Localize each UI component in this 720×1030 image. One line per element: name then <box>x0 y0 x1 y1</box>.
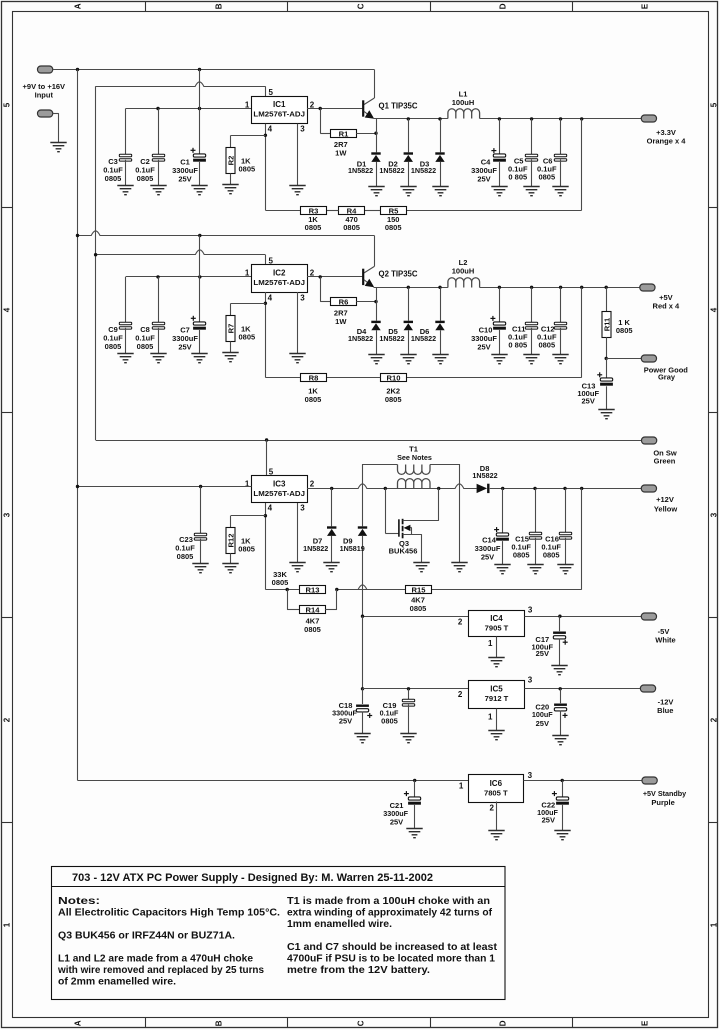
wire IC1 pin3 <box>297 124 299 185</box>
ground <box>413 563 429 572</box>
resistor R11 1K <box>605 286 608 289</box>
svg-text:0805: 0805 <box>137 174 154 183</box>
node C7 tap <box>198 275 201 278</box>
wire IC3 pin2 +12V line <box>307 484 477 489</box>
ground <box>400 734 416 743</box>
wire IC5 pin1 <box>496 709 498 731</box>
regulator IC3 LM2576T-ADJ <box>252 476 308 503</box>
ground <box>222 353 238 362</box>
svg-text:1N5822: 1N5822 <box>379 334 404 343</box>
diode D4 1N5822 <box>376 287 378 320</box>
node C21 tap <box>413 779 416 782</box>
node C1 tap <box>198 107 201 110</box>
transistor Q3 BUK456 mosfet <box>385 488 387 533</box>
svg-text:1mm enamelled wire.: 1mm enamelled wire. <box>287 919 392 930</box>
ground <box>222 185 238 194</box>
node section2 rail junction <box>76 234 79 237</box>
svg-text:1: 1 <box>710 922 719 927</box>
svg-text:0 805: 0 805 <box>508 341 527 350</box>
resistor R14 4K7 <box>287 590 289 610</box>
svg-text:3: 3 <box>300 125 305 134</box>
wire switch node 1 <box>374 118 448 120</box>
output terminal +12V <box>580 487 583 490</box>
node C7 rail tap <box>198 234 201 237</box>
diode D3 1N5822 <box>438 117 441 120</box>
svg-text:4: 4 <box>268 504 273 513</box>
wire section2 input rail <box>78 231 375 236</box>
wire IC1 pin1 line <box>126 108 252 110</box>
svg-text:A: A <box>73 1020 82 1026</box>
svg-text:0805: 0805 <box>177 552 194 561</box>
diode D1 1N5822 <box>376 119 378 152</box>
wire +V input rail <box>53 69 375 71</box>
wire on/off line to On-Sw <box>96 440 642 442</box>
node C8 tap <box>156 275 159 278</box>
ground <box>192 564 208 573</box>
svg-text:1: 1 <box>488 713 493 722</box>
svg-text:25V: 25V <box>390 818 403 827</box>
node C22 tap <box>561 779 564 782</box>
svg-text:1: 1 <box>245 480 250 489</box>
svg-text:R14: R14 <box>306 605 321 614</box>
ground <box>400 187 416 196</box>
svg-text:2: 2 <box>458 618 463 627</box>
svg-text:0805: 0805 <box>272 578 289 587</box>
svg-text:4: 4 <box>2 307 11 312</box>
capacitor C9 <box>125 277 127 323</box>
capacitor C7 <box>199 236 201 324</box>
capacitor C3 <box>125 109 127 156</box>
svg-text:5: 5 <box>2 102 11 107</box>
svg-text:3: 3 <box>710 512 719 517</box>
resistor R3 1K <box>301 207 327 215</box>
svg-text:25V: 25V <box>542 816 555 825</box>
ground <box>222 564 238 573</box>
svg-text:B: B <box>214 3 223 9</box>
svg-text:1N5822: 1N5822 <box>348 166 373 175</box>
svg-text:1N5822: 1N5822 <box>411 334 436 343</box>
svg-text:0805: 0805 <box>538 172 555 181</box>
wire IC2 pin2 line <box>307 276 362 278</box>
wire <box>327 377 380 379</box>
svg-text:0805: 0805 <box>538 341 555 350</box>
svg-text:R1: R1 <box>339 129 349 138</box>
wire switch node 2 <box>374 287 448 289</box>
svg-text:0805: 0805 <box>105 342 122 351</box>
svg-text:100uH: 100uH <box>452 266 475 275</box>
svg-text:R13: R13 <box>306 585 320 594</box>
svg-text:0805: 0805 <box>343 223 360 232</box>
resistor R2 1K <box>231 135 266 137</box>
ground <box>491 355 507 364</box>
node pin5 bus tap <box>94 253 97 256</box>
svg-text:25V: 25V <box>536 719 549 728</box>
svg-text:R8: R8 <box>309 373 319 382</box>
svg-text:2: 2 <box>2 717 11 722</box>
resistor R12 1K <box>231 515 266 517</box>
wire feedback to pin4 <box>265 377 300 379</box>
node Q3 gate tap <box>384 487 387 490</box>
wire <box>337 585 405 590</box>
svg-text:0805: 0805 <box>239 332 256 341</box>
svg-text:LM2576T-ADJ: LM2576T-ADJ <box>253 278 305 287</box>
capacitor C22 100uF <box>562 780 564 796</box>
ground <box>368 187 384 196</box>
ground <box>368 355 384 364</box>
node C2 tap <box>156 107 159 110</box>
svg-text:1N5822: 1N5822 <box>348 334 373 343</box>
svg-text:E: E <box>640 3 649 9</box>
capacitor C1 <box>199 70 201 156</box>
svg-text:0805: 0805 <box>385 223 402 232</box>
svg-text:7912 T: 7912 T <box>485 694 509 703</box>
resistor R4 470 <box>339 207 365 215</box>
svg-text:Q2 TIP35C: Q2 TIP35C <box>379 270 418 279</box>
diode D6 1N5822 <box>438 286 441 289</box>
diode D5 1N5822 <box>407 286 410 289</box>
resistor R1 <box>320 109 322 134</box>
wire IC2 pin1 line <box>126 276 252 278</box>
ground <box>191 354 207 363</box>
capacitor C17 100uF <box>559 616 561 631</box>
node C23 tap <box>199 485 202 488</box>
wire <box>365 210 381 212</box>
ground <box>488 658 504 667</box>
ground <box>488 831 504 840</box>
wire <box>265 589 299 591</box>
svg-text:0805: 0805 <box>105 174 122 183</box>
svg-text:C1 and C7 should be increased: C1 and C7 should be increased to at leas… <box>287 942 498 953</box>
svg-text:D: D <box>498 3 507 9</box>
regulator IC1 LM2576T-ADJ <box>252 97 308 124</box>
node input junction <box>76 68 79 71</box>
ground <box>400 355 416 364</box>
transformer T1 secondary winding <box>363 464 398 466</box>
svg-text:0805: 0805 <box>410 604 427 613</box>
svg-text:25V: 25V <box>481 553 494 562</box>
svg-text:LM2576T-ADJ: LM2576T-ADJ <box>253 489 305 498</box>
node C20 tap <box>559 687 562 690</box>
node pin1 bus junction <box>76 485 79 488</box>
node C19 tap <box>407 687 410 690</box>
wire +3.3V output line <box>480 118 642 120</box>
output terminal On Sw <box>642 437 657 444</box>
svg-text:Q1 TIP35C: Q1 TIP35C <box>379 101 418 110</box>
svg-text:0805: 0805 <box>305 395 322 404</box>
svg-text:+3.3V: +3.3V <box>656 128 676 137</box>
svg-text:0805: 0805 <box>239 164 256 173</box>
ground <box>552 355 568 364</box>
svg-text:R15: R15 <box>412 585 427 594</box>
wire main input bus <box>77 70 79 781</box>
node IC3 pin5 tap <box>265 438 268 441</box>
svg-text:703 - 12V ATX PC Power Supply: 703 - 12V ATX PC Power Supply - Designed… <box>72 872 433 884</box>
output terminal -12V <box>640 685 655 692</box>
svg-text:with wire removed and replaced: with wire removed and replaced by 25 tur… <box>57 965 265 976</box>
wire -12V output line <box>525 688 641 690</box>
wire IC3 pin5 drop <box>266 440 268 476</box>
svg-text:A: A <box>73 3 82 9</box>
wire power good line <box>606 358 641 360</box>
capacitor C15 0.1uF <box>533 487 536 490</box>
diode D7 1N5822 <box>331 488 333 526</box>
svg-text:0805: 0805 <box>305 223 322 232</box>
ground <box>432 187 448 196</box>
svg-text:25V: 25V <box>582 396 595 405</box>
ground <box>488 731 504 740</box>
svg-text:25V: 25V <box>339 717 352 726</box>
ground <box>523 187 539 196</box>
svg-text:3: 3 <box>528 771 533 780</box>
regulator IC2 LM2576T-ADJ <box>252 265 308 293</box>
resistor R6 <box>320 277 322 302</box>
node R12 tap <box>264 514 267 517</box>
svg-text:1: 1 <box>2 922 11 927</box>
wire +12V output line <box>490 488 642 490</box>
ground <box>289 563 305 572</box>
diode D8 1N5822 <box>477 484 490 493</box>
capacitor C10 3300uF <box>498 286 501 289</box>
capacitor C23 0.1uF <box>200 487 202 535</box>
wire on/off bus <box>95 86 97 440</box>
wire IC2 pin3 <box>297 292 299 353</box>
wire feedback 2 <box>581 287 583 377</box>
svg-text:1: 1 <box>488 639 493 648</box>
svg-text:R7: R7 <box>226 324 235 334</box>
ground <box>598 410 614 419</box>
svg-text:R6: R6 <box>339 297 349 306</box>
ground <box>191 186 207 195</box>
ground <box>491 187 507 196</box>
diode D2 1N5822 <box>407 117 410 120</box>
svg-text:0805: 0805 <box>385 395 402 404</box>
wire IC6 pin2 <box>496 802 498 831</box>
svg-text:1: 1 <box>245 269 250 278</box>
svg-text:4700uF if PSU is to be located: 4700uF if PSU is to be located more than… <box>287 954 496 965</box>
transistor Q1 TIP35C <box>374 70 376 99</box>
ground <box>289 186 305 195</box>
svg-text:All Electrolitic Capacitors Hi: All Electrolitic Capacitors High Temp 10… <box>58 908 280 919</box>
wire IC1 pin2 line <box>307 108 362 110</box>
ground <box>117 186 133 195</box>
svg-text:25V: 25V <box>477 174 490 183</box>
resistor R15 4K7 <box>406 586 432 594</box>
svg-text:1N5822: 1N5822 <box>379 166 404 175</box>
svg-text:+12V: +12V <box>656 495 674 504</box>
capacitor C14 3300uF <box>501 487 504 490</box>
input terminal + <box>38 66 53 73</box>
node D7 tap <box>330 487 333 490</box>
svg-text:D: D <box>498 1020 507 1026</box>
svg-text:IC5: IC5 <box>490 685 503 694</box>
diode D9 1N5819 <box>362 464 364 526</box>
ground <box>323 563 339 572</box>
svg-text:IC3: IC3 <box>273 479 286 488</box>
svg-text:3: 3 <box>300 294 305 303</box>
ground <box>554 831 570 840</box>
capacitor C13 100uF <box>606 358 608 379</box>
wire <box>363 688 469 690</box>
svg-text:5: 5 <box>269 256 274 265</box>
node Q3 drain tap <box>437 487 440 490</box>
output terminal Power Good <box>641 355 656 362</box>
node C1 rail tap <box>198 68 201 71</box>
svg-text:4: 4 <box>710 307 719 312</box>
resistor R10 2K2 <box>381 374 407 382</box>
svg-text:7805 T: 7805 T <box>484 789 508 798</box>
svg-text:R12: R12 <box>226 534 235 548</box>
capacitor C19 0.1uF <box>408 689 410 700</box>
node R6-D4 junction <box>374 300 377 303</box>
svg-text:0805: 0805 <box>137 342 154 351</box>
node power good junction <box>605 357 608 360</box>
svg-text:IC1: IC1 <box>273 100 286 109</box>
svg-text:Gray: Gray <box>658 373 676 382</box>
svg-text:IC4: IC4 <box>490 614 503 623</box>
output terminal +3.3V <box>580 117 583 120</box>
ground <box>494 565 510 574</box>
svg-text:1N5822: 1N5822 <box>411 166 436 175</box>
resistor R7 1K <box>231 303 266 305</box>
transistor Q2 TIP35C <box>374 236 376 267</box>
svg-text:3: 3 <box>300 504 305 513</box>
svg-text:1N5822: 1N5822 <box>303 544 328 553</box>
regulator IC5 7912T <box>469 681 525 709</box>
svg-text:L1 and L2 are made from a 470u: L1 and L2 are made from a 470uH choke <box>58 954 254 965</box>
resistor R13 33K <box>300 586 326 594</box>
svg-text:1W: 1W <box>335 149 347 158</box>
wire feedback 3 <box>581 488 583 589</box>
wire IC3 pin1 line <box>78 486 252 488</box>
svg-text:0805: 0805 <box>304 625 321 634</box>
wire IC1 pin4 <box>265 124 267 211</box>
svg-text:C: C <box>356 3 365 9</box>
svg-text:+5V Standby: +5V Standby <box>643 789 686 798</box>
svg-text:Q3 BUK456 or IRFZ44N or BUZ71A: Q3 BUK456 or IRFZ44N or BUZ71A. <box>58 931 235 942</box>
capacitor C2 <box>158 109 160 156</box>
output terminal +5V <box>580 286 583 289</box>
svg-text:0805: 0805 <box>513 551 530 560</box>
svg-text:Yellow: Yellow <box>654 504 678 513</box>
svg-text:25V: 25V <box>178 174 191 183</box>
svg-text:1W: 1W <box>335 317 347 326</box>
svg-text:0805: 0805 <box>238 545 255 554</box>
wire IC4 pin1 <box>496 637 498 658</box>
svg-text:Red x 4: Red x 4 <box>653 302 681 311</box>
node R13-R14 left junction <box>286 588 289 591</box>
svg-text:2: 2 <box>490 804 495 813</box>
wire +5V standby output line <box>524 780 643 782</box>
ground <box>117 354 133 363</box>
svg-text:0 805: 0 805 <box>508 172 527 181</box>
capacitor C6 0.1uF <box>559 117 562 120</box>
ground <box>451 563 467 572</box>
ground <box>432 355 448 364</box>
capacitor C21 3300uF <box>414 780 416 796</box>
svg-text:R2: R2 <box>226 156 235 166</box>
inductor L1 100uH <box>448 109 480 119</box>
node R13-R14 right junction <box>335 588 338 591</box>
svg-text:E: E <box>640 1020 649 1026</box>
capacitor C20 100uF <box>560 689 562 703</box>
svg-text:5: 5 <box>269 88 274 97</box>
ground <box>552 736 568 745</box>
title block <box>52 867 506 1000</box>
output terminal +5V standby <box>642 777 657 784</box>
wire <box>53 113 59 115</box>
svg-text:2: 2 <box>710 717 719 722</box>
regulator IC4 7905T <box>469 611 525 637</box>
svg-text:100uF: 100uF <box>532 710 553 719</box>
svg-text:R10: R10 <box>387 373 401 382</box>
wire -V rail to IC4 <box>363 616 469 618</box>
svg-text:metre from the 12V battery.: metre from the 12V battery. <box>287 965 430 976</box>
regulator IC6 7805T <box>469 775 524 803</box>
ground <box>289 354 305 363</box>
resistor R8 1K <box>301 374 327 382</box>
svg-text:3: 3 <box>528 676 533 685</box>
wire standby rail <box>78 780 469 782</box>
svg-text:100uH: 100uH <box>452 98 475 107</box>
svg-text:Green: Green <box>654 456 676 465</box>
node C18 junction <box>361 687 364 690</box>
wire feedback to pin4 <box>265 210 300 212</box>
svg-text:extra winding of approximately: extra winding of approximately 42 turns … <box>287 908 493 919</box>
capacitor C4 3300uF <box>498 117 501 120</box>
svg-text:Input: Input <box>35 91 54 100</box>
svg-text:BUK456: BUK456 <box>389 547 418 556</box>
capacitor C5 0.1uF <box>530 117 533 120</box>
transformer T1 primary winding <box>398 479 431 489</box>
svg-text:1: 1 <box>245 100 250 109</box>
svg-text:0805: 0805 <box>543 551 560 560</box>
svg-text:T1 is made from a 100uH choke: T1 is made from a 100uH choke with an <box>287 896 490 907</box>
inductor L2 100uH <box>448 278 480 288</box>
svg-text:3: 3 <box>2 512 11 517</box>
svg-text:LM2576T-ADJ: LM2576T-ADJ <box>253 110 305 119</box>
node R2 tap <box>264 134 267 137</box>
svg-text:of 2mm enamelled wire.: of 2mm enamelled wire. <box>58 977 176 988</box>
wire IC2 pin5 link <box>96 250 266 255</box>
ground <box>527 565 543 574</box>
svg-text:25V: 25V <box>536 649 549 658</box>
ground <box>523 355 539 364</box>
node C17 tap <box>558 615 561 618</box>
output terminal -5V <box>641 613 656 620</box>
ground <box>552 187 568 196</box>
svg-text:1N5819: 1N5819 <box>340 544 365 553</box>
ground <box>406 829 422 838</box>
ground <box>557 565 573 574</box>
capacitor C16 0.1uF <box>563 487 566 490</box>
svg-text:Orange x 4: Orange x 4 <box>647 137 687 146</box>
svg-text:4: 4 <box>268 125 273 134</box>
wire -V rail to IC5 <box>362 616 364 689</box>
ground <box>551 666 567 675</box>
svg-text:4: 4 <box>268 294 273 303</box>
wire IC1 pin5 link <box>96 82 266 87</box>
node R6 tap <box>319 275 322 278</box>
node R7 tap <box>264 302 267 305</box>
svg-text:25V: 25V <box>477 343 490 352</box>
svg-text:IC6: IC6 <box>490 779 503 788</box>
wire IC3 pin3 <box>297 503 299 563</box>
svg-text:5: 5 <box>710 102 719 107</box>
svg-text:Purple: Purple <box>651 798 674 807</box>
svg-text:1: 1 <box>459 781 464 790</box>
ground <box>354 734 370 743</box>
input terminal - <box>38 110 53 117</box>
